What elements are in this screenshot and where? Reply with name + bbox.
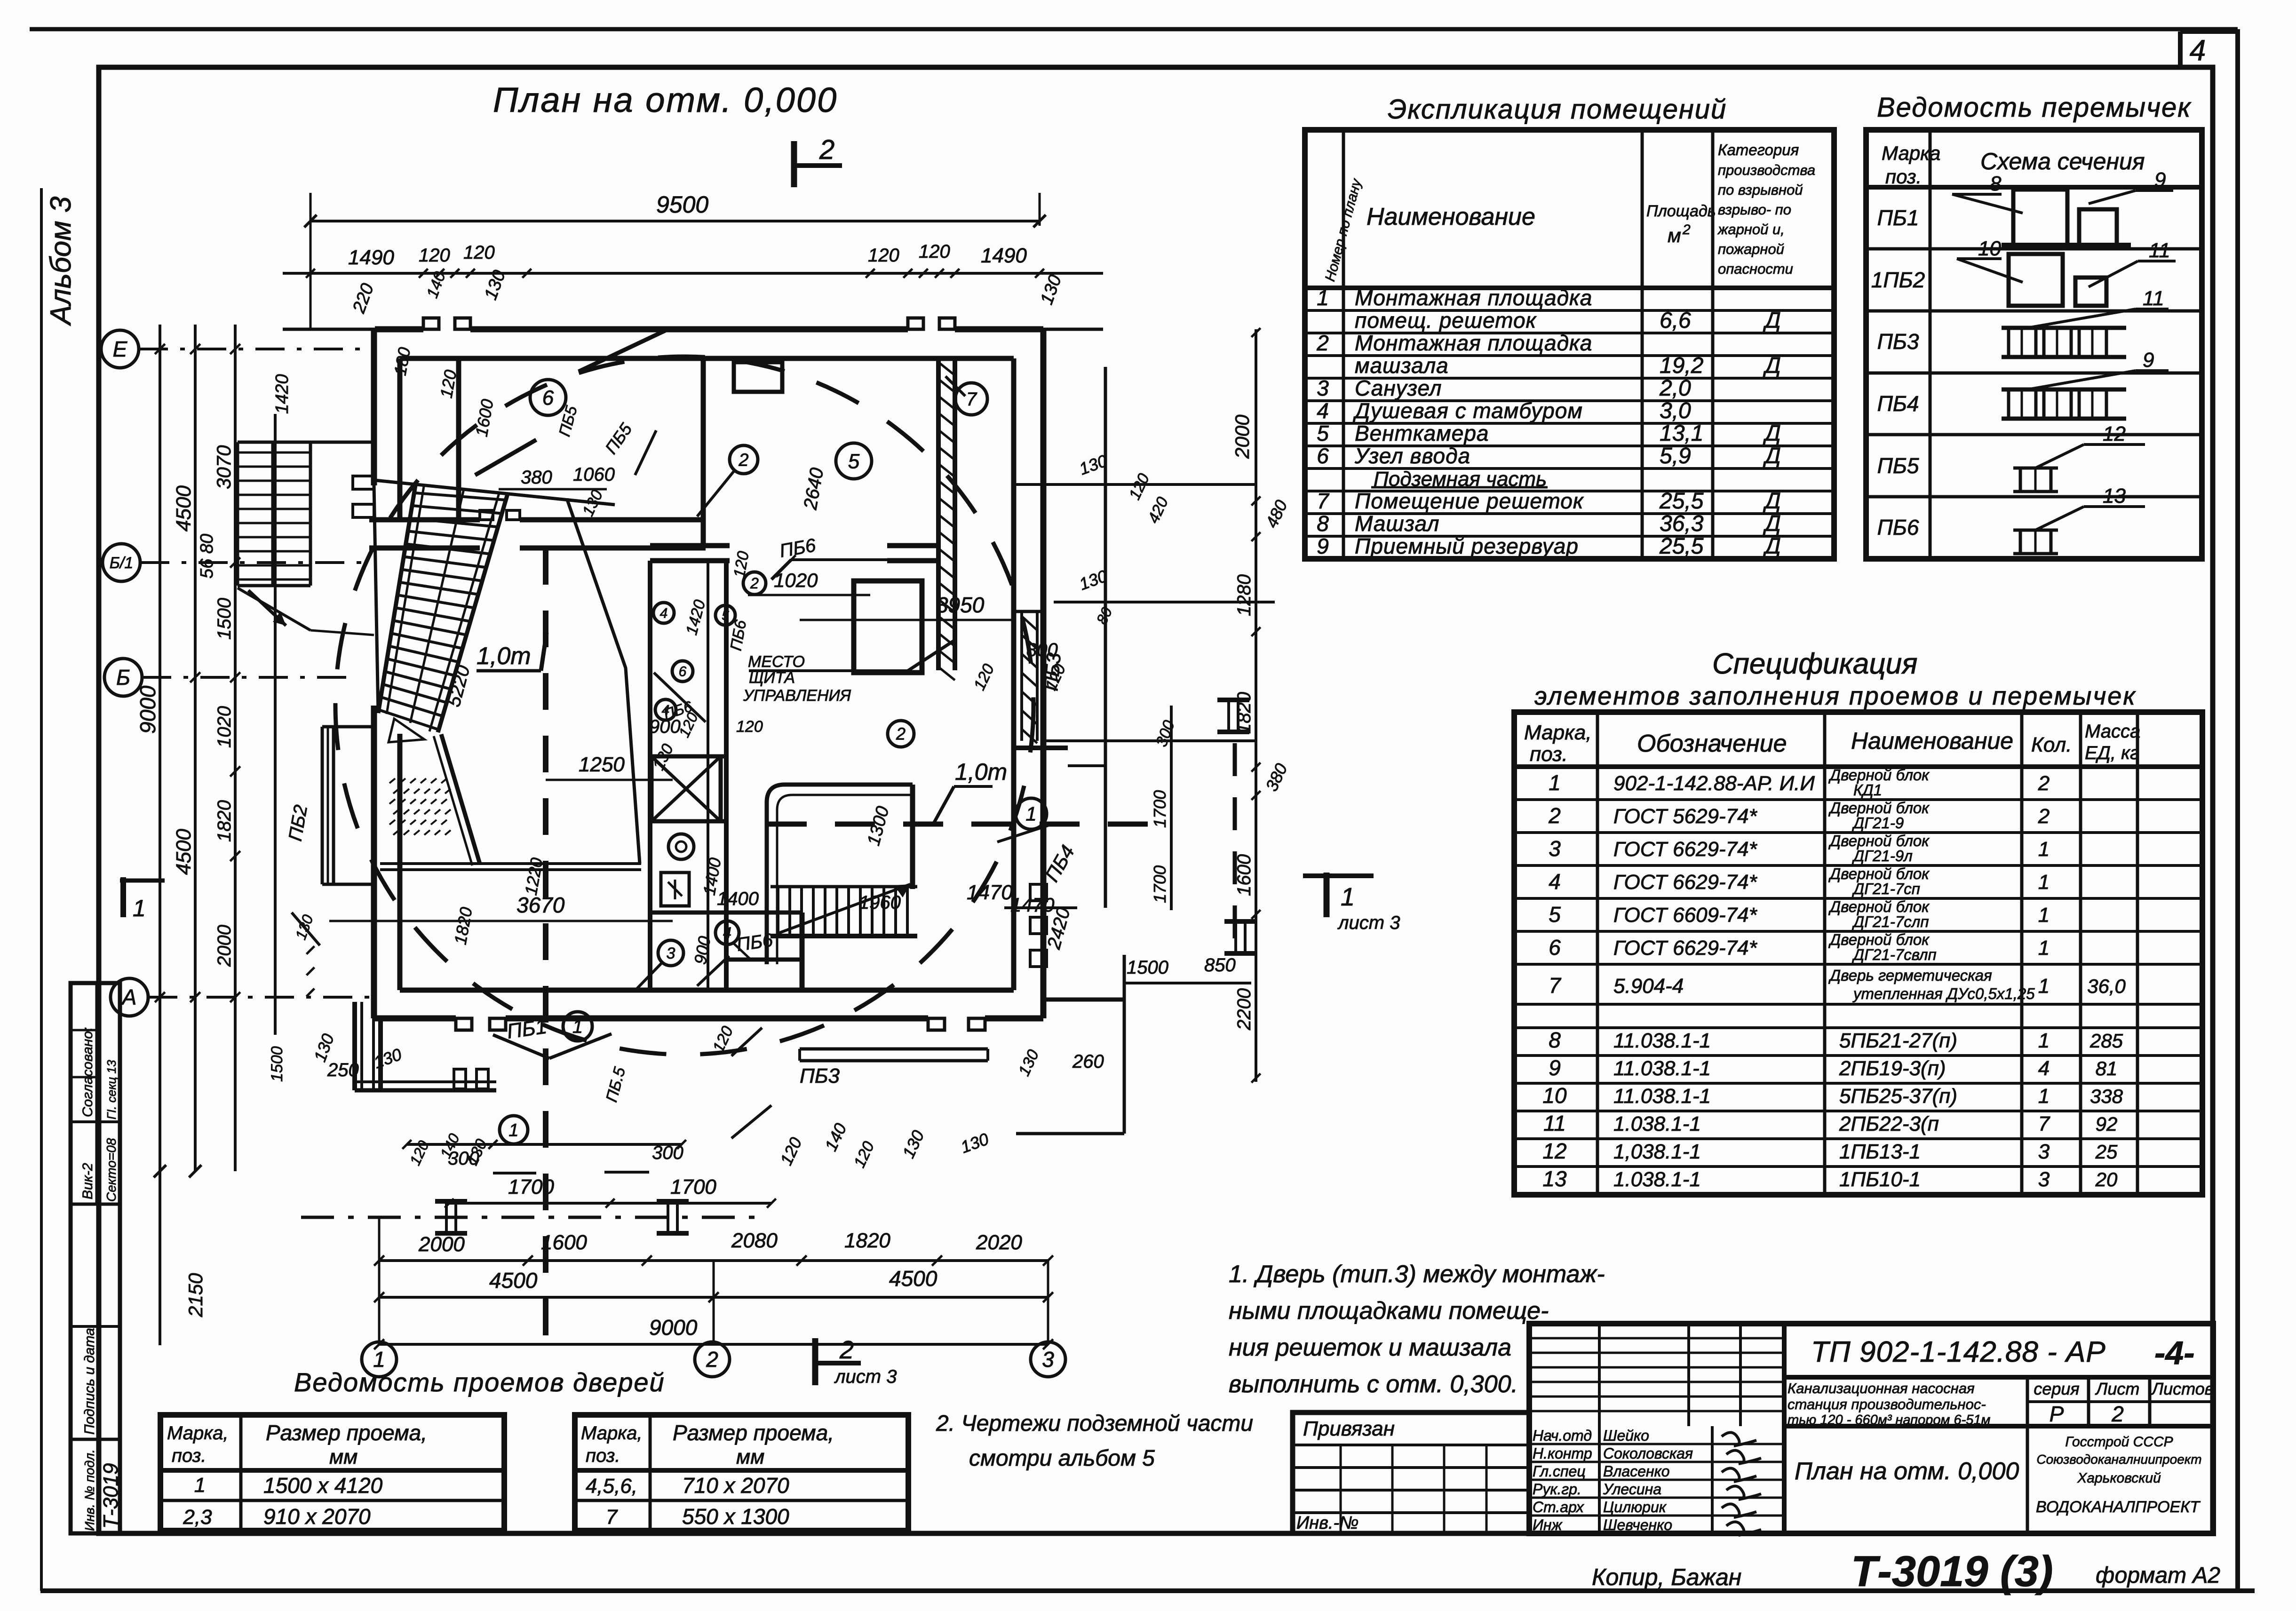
svg-text:11: 11	[2149, 239, 2170, 262]
door leader dashes	[579, 329, 668, 372]
svg-text:Спецификация: Спецификация	[1712, 648, 1917, 680]
svg-text:2000: 2000	[418, 1233, 465, 1256]
svg-text:1600: 1600	[1234, 854, 1255, 896]
svg-text:опасности: опасности	[1718, 261, 1793, 277]
svg-text:1060: 1060	[573, 464, 615, 485]
right porch	[1104, 367, 1107, 908]
svg-text:Д: Д	[1763, 511, 1781, 536]
axis B dashdot	[142, 676, 358, 679]
svg-text:1.038.1-1: 1.038.1-1	[1613, 1168, 1701, 1191]
svg-text:1820: 1820	[844, 1229, 890, 1252]
svg-text:25,5: 25,5	[1659, 489, 1704, 514]
svg-text:1: 1	[1025, 803, 1036, 825]
dim 300-1700 cluster	[493, 1172, 536, 1175]
right dashed vertical	[1233, 743, 1237, 943]
svg-text:ГОСТ 6609-74*: ГОСТ 6609-74*	[1613, 904, 1758, 927]
svg-text:910 х 2070: 910 х 2070	[263, 1504, 371, 1529]
svg-text:Приемный резервуар: Приемный резервуар	[1355, 534, 1579, 558]
svg-text:серия: серия	[2034, 1379, 2079, 1398]
svg-text:1470: 1470	[1010, 894, 1055, 916]
left wall window stubs	[353, 476, 374, 489]
svg-text:тью 120 - 660м³ напором 6-51м: тью 120 - 660м³ напором 6-51м	[1788, 1413, 1990, 1428]
svg-text:Шевченко: Шевченко	[1603, 1516, 1672, 1533]
right horizontal dims	[1016, 483, 1256, 486]
svg-text:машзала: машзала	[1355, 353, 1449, 378]
svg-text:3070: 3070	[213, 445, 235, 489]
right dashed horizontal	[767, 822, 1176, 827]
title block: signature rows	[1598, 1426, 1601, 1533]
left exterior wall	[371, 329, 377, 485]
svg-text:9: 9	[1317, 534, 1329, 558]
svg-text:1: 1	[1549, 770, 1561, 795]
svg-text:-4-: -4-	[2154, 1334, 2195, 1371]
hatched partition room7	[936, 358, 941, 670]
bottom exterior wall	[375, 1016, 456, 1022]
svg-text:Рук.гр.: Рук.гр.	[1533, 1481, 1581, 1498]
svg-text:1: 1	[2038, 838, 2050, 861]
svg-text:1700: 1700	[508, 1175, 554, 1198]
svg-text:1500 х 4120: 1500 х 4120	[263, 1473, 383, 1498]
svg-text:Привязан: Привязан	[1303, 1417, 1395, 1440]
svg-text:поз.: поз.	[172, 1445, 207, 1466]
svg-text:1: 1	[572, 1016, 583, 1037]
svg-text:2: 2	[896, 724, 906, 744]
svg-text:3670: 3670	[516, 893, 565, 917]
svg-text:Шейко: Шейко	[1603, 1427, 1649, 1444]
svg-text:2ПБ19-3(п): 2ПБ19-3(п)	[1839, 1057, 1946, 1080]
svg-text:станция производительнос-: станция производительнос-	[1788, 1396, 1986, 1413]
svg-text:Наименование: Наименование	[1851, 728, 2013, 754]
spec table frame	[1514, 712, 2202, 1195]
svg-text:1,0т: 1,0т	[955, 759, 1007, 785]
svg-text:5: 5	[1317, 421, 1329, 445]
svg-text:Д: Д	[1763, 489, 1781, 514]
svg-text:Санузел: Санузел	[1355, 376, 1442, 400]
svg-text:5: 5	[848, 450, 860, 473]
svg-text:Листов: Листов	[2151, 1379, 2213, 1398]
svg-text:1: 1	[1317, 286, 1329, 310]
svg-text:ПБ5: ПБ5	[1877, 453, 1919, 478]
dim 9500	[310, 220, 1040, 222]
svg-text:8: 8	[1317, 511, 1329, 536]
svg-text:1500: 1500	[268, 1046, 286, 1082]
svg-text:Т-3019 (3): Т-3019 (3)	[1851, 1548, 2053, 1595]
svg-text:1: 1	[2038, 1085, 2050, 1108]
door table left	[160, 1415, 504, 1531]
svg-text:2: 2	[2038, 805, 2050, 828]
svg-text:12: 12	[2103, 422, 2126, 445]
svg-text:ПБ1: ПБ1	[1877, 206, 1919, 230]
svg-text:300: 300	[652, 1143, 683, 1163]
internal stair well	[767, 785, 913, 964]
underground circular shell (dashed)	[335, 357, 1033, 1055]
svg-text:ными площадками помеще-: ными площадками помеще-	[1229, 1297, 1549, 1325]
svg-text:2000: 2000	[1231, 414, 1253, 459]
basin fixture	[661, 873, 689, 906]
svg-text:3: 3	[1549, 836, 1561, 861]
svg-text:Нач.отд: Нач.отд	[1533, 1427, 1592, 1444]
svg-text:5: 5	[1549, 902, 1561, 927]
svg-text:Узел ввода: Узел ввода	[1354, 444, 1470, 468]
svg-text:3,0: 3,0	[1660, 398, 1691, 423]
sheet outer edge left	[40, 188, 43, 1591]
svg-text:Б: Б	[116, 665, 130, 690]
svg-text:11.038.1-1: 11.038.1-1	[1613, 1057, 1711, 1080]
ventilation X box	[651, 756, 721, 821]
diagonal staircase treads	[415, 493, 506, 500]
svg-text:1: 1	[2038, 975, 2050, 998]
svg-text:Е: Е	[113, 337, 128, 361]
door table right	[575, 1415, 908, 1531]
svg-text:900: 900	[649, 716, 681, 737]
svg-text:380: 380	[521, 467, 552, 488]
svg-text:Размер проема,: Размер проема,	[673, 1421, 834, 1445]
svg-text:Инв. № подл.: Инв. № подл.	[82, 1449, 97, 1531]
svg-text:1500: 1500	[214, 598, 235, 640]
room circles	[530, 380, 566, 415]
svg-text:Д: Д	[1763, 353, 1781, 378]
bottom-right porch slab	[800, 1048, 988, 1051]
svg-text:Д: Д	[1763, 444, 1781, 468]
svg-text:1820: 1820	[1234, 692, 1255, 734]
svg-text:56 80: 56 80	[197, 534, 217, 579]
svg-text:550 х 1300: 550 х 1300	[682, 1504, 789, 1529]
svg-text:ПБ4: ПБ4	[1877, 391, 1919, 416]
svg-text:1ПБ2: 1ПБ2	[1871, 268, 1925, 292]
svg-text:1490: 1490	[981, 244, 1027, 267]
svg-text:Д: Д	[1763, 534, 1781, 559]
svg-text:36,0: 36,0	[2087, 975, 2126, 997]
svg-text:5ПБ25-37(п): 5ПБ25-37(п)	[1839, 1085, 1957, 1108]
privyazan box	[1293, 1413, 1529, 1533]
svg-text:2,3: 2,3	[183, 1506, 212, 1529]
title block: seriya/list	[2087, 1377, 2090, 1426]
svg-text:Р: Р	[2050, 1402, 2064, 1426]
section mark 2 bottom	[812, 1338, 818, 1385]
svg-text:УПРАВЛЕНИЯ: УПРАВЛЕНИЯ	[743, 687, 851, 705]
room1 south edge	[380, 862, 641, 865]
svg-text:1,0т: 1,0т	[477, 643, 531, 670]
svg-text:Вик-2: Вик-2	[80, 1163, 95, 1199]
svg-text:мм: мм	[736, 1445, 764, 1468]
svg-text:1470: 1470	[967, 881, 1013, 904]
svg-text:5.904-4: 5.904-4	[1613, 975, 1684, 998]
svg-text:1490: 1490	[348, 246, 394, 269]
svg-text:9: 9	[2143, 349, 2154, 372]
svg-text:4: 4	[723, 924, 731, 941]
svg-text:6: 6	[1549, 935, 1561, 960]
svg-text:ТП 902-1-142.88 - АР: ТП 902-1-142.88 - АР	[1811, 1336, 2106, 1368]
svg-text:4,5,6,: 4,5,6,	[586, 1475, 637, 1498]
svg-text:5ПБ21-27(п): 5ПБ21-27(п)	[1839, 1029, 1957, 1052]
svg-text:ПБ3: ПБ3	[1877, 329, 1919, 354]
svg-text:120: 120	[463, 242, 495, 263]
svg-text:9000: 9000	[135, 685, 160, 734]
hatch patch	[389, 778, 395, 783]
svg-text:338: 338	[2090, 1085, 2123, 1107]
svg-text:120: 120	[736, 718, 763, 736]
svg-text:Размер проема,: Размер проема,	[266, 1421, 427, 1445]
table explication frame	[1305, 130, 1834, 559]
column symbol right-bottom	[1224, 919, 1256, 924]
svg-text:7: 7	[606, 1506, 618, 1529]
title block: designation box	[1784, 1375, 2213, 1380]
svg-text:1. Дверь (тип.3) между монтаж-: 1. Дверь (тип.3) между монтаж-	[1229, 1261, 1605, 1288]
right inner dim chain	[1170, 706, 1173, 910]
column symbol bottom-right	[657, 1199, 689, 1204]
svg-text:Улесина: Улесина	[1603, 1481, 1661, 1498]
svg-text:4500: 4500	[889, 1266, 937, 1291]
svg-text:8: 8	[1549, 1028, 1561, 1052]
dim line 4500/4500	[379, 1296, 1048, 1299]
svg-text:производства: производства	[1718, 162, 1815, 178]
partition room6 vertical	[456, 358, 461, 520]
svg-text:2ПБ22-3(п: 2ПБ22-3(п	[1839, 1112, 1939, 1135]
svg-text:ДГ21-7свлп: ДГ21-7свлп	[1851, 946, 1937, 963]
svg-text:1: 1	[133, 895, 146, 921]
dim line 2000/1600/2080/1820/2020	[379, 1259, 1048, 1262]
svg-text:1ПБ13-1: 1ПБ13-1	[1839, 1140, 1921, 1163]
title block: project name	[1784, 1424, 2213, 1428]
svg-text:Марка,: Марка,	[1524, 721, 1592, 744]
svg-text:2000: 2000	[214, 925, 235, 967]
svg-text:4: 4	[1317, 398, 1329, 423]
svg-text:2: 2	[1682, 222, 1691, 238]
svg-text:Д: Д	[1763, 308, 1781, 333]
svg-text:13,1: 13,1	[1660, 421, 1703, 446]
axis circle B/1	[103, 544, 140, 581]
svg-text:8: 8	[1990, 172, 2002, 195]
svg-text:КД1: КД1	[1853, 781, 1882, 799]
section mark T1 right	[1324, 873, 1330, 917]
svg-text:Марка,: Марка,	[167, 1423, 229, 1444]
title block outer	[1529, 1324, 2213, 1533]
partition between room6 and room5	[701, 358, 706, 548]
bottom-left porch	[352, 1002, 357, 1090]
svg-text:5,9: 5,9	[1660, 444, 1691, 468]
svg-text:Экспликация помещений: Экспликация помещений	[1388, 94, 1727, 125]
svg-text:Венткамера: Венткамера	[1355, 421, 1489, 445]
wall below stair	[441, 734, 480, 864]
svg-text:285: 285	[2089, 1030, 2123, 1052]
section mark 2 top	[791, 141, 797, 187]
svg-text:7: 7	[1549, 973, 1561, 998]
control panel box	[854, 581, 922, 673]
top exterior wall	[375, 326, 423, 333]
svg-text:Секто=08: Секто=08	[104, 1138, 119, 1202]
svg-text:ГОСТ 6629-74*: ГОСТ 6629-74*	[1613, 838, 1758, 861]
svg-text:1: 1	[2038, 871, 2050, 894]
svg-text:Гл.спец: Гл.спец	[1533, 1463, 1586, 1480]
svg-text:9: 9	[2154, 168, 2166, 191]
svg-text:800: 800	[1026, 640, 1058, 660]
axis circle E	[101, 330, 139, 368]
svg-text:План на отм. 0,000: План на отм. 0,000	[493, 80, 838, 119]
svg-text:11.038.1-1: 11.038.1-1	[1613, 1029, 1711, 1052]
svg-text:120: 120	[919, 241, 950, 262]
exterior stair arrow	[248, 590, 286, 626]
svg-text:1420: 1420	[272, 374, 292, 414]
svg-text:Согласовано:: Согласовано:	[80, 1027, 95, 1117]
left wall window bump	[321, 727, 324, 884]
svg-text:1: 1	[1341, 883, 1355, 911]
svg-text:Т-3019: Т-3019	[99, 1463, 122, 1529]
right wall window	[1020, 611, 1023, 741]
svg-text:Лист: Лист	[2095, 1379, 2140, 1398]
svg-text:9500: 9500	[656, 191, 708, 218]
svg-text:3: 3	[667, 944, 675, 962]
svg-text:поз.: поз.	[1530, 743, 1568, 766]
svg-text:25: 25	[2095, 1141, 2118, 1163]
svg-text:взрыво- по: взрыво- по	[1718, 201, 1791, 218]
svg-text:1: 1	[2038, 904, 2050, 927]
internal stair treads	[771, 885, 917, 889]
svg-text:помещ. решеток: помещ. решеток	[1355, 308, 1537, 333]
left stamp strip	[71, 983, 120, 1533]
svg-text:4: 4	[1549, 869, 1561, 894]
svg-text:Д: Д	[1763, 421, 1781, 446]
svg-text:Марка: Марка	[1882, 142, 1940, 164]
svg-text:Схема сечения: Схема сечения	[1980, 148, 2145, 175]
right lower dims	[1004, 906, 1077, 909]
svg-text:2020: 2020	[976, 1231, 1022, 1254]
column symbol right-top	[1217, 698, 1249, 702]
svg-text:902-1-142.88-АР. И.И: 902-1-142.88-АР. И.И	[1613, 772, 1815, 795]
svg-text:1250: 1250	[579, 753, 625, 776]
svg-text:Кол.: Кол.	[2031, 733, 2072, 756]
svg-text:260: 260	[1072, 1051, 1104, 1072]
svg-text:Категория: Категория	[1718, 141, 1799, 159]
stair top edge line	[375, 480, 615, 505]
svg-text:2: 2	[1548, 803, 1561, 828]
svg-text:по взрывной: по взрывной	[1718, 182, 1803, 198]
svg-text:Цилюрик: Цилюрик	[1603, 1499, 1667, 1516]
svg-text:7: 7	[1317, 489, 1329, 513]
svg-text:1960: 1960	[859, 892, 901, 913]
svg-text:4: 4	[2190, 34, 2206, 67]
svg-text:м: м	[1668, 224, 1681, 246]
svg-text:ГОСТ 6629-74*: ГОСТ 6629-74*	[1613, 936, 1758, 960]
svg-text:Монтажная площадка: Монтажная площадка	[1355, 286, 1592, 310]
svg-text:2: 2	[2038, 772, 2050, 795]
svg-text:Монтажная площадка: Монтажная площадка	[1355, 331, 1592, 355]
svg-text:Марка,: Марка,	[581, 1423, 643, 1444]
svg-text:1600: 1600	[541, 1231, 587, 1254]
svg-text:ПБ3: ПБ3	[800, 1064, 840, 1087]
sheet outer edge right	[2235, 29, 2240, 1591]
svg-text:Масса: Масса	[2085, 721, 2140, 742]
svg-text:МЕСТО: МЕСТО	[748, 653, 805, 671]
svg-text:11: 11	[2143, 287, 2164, 310]
svg-text:2080: 2080	[731, 1229, 778, 1252]
svg-text:4: 4	[660, 606, 668, 621]
axis circle A	[111, 978, 148, 1016]
svg-text:пожарной: пожарной	[1718, 241, 1784, 257]
axis E dashdot	[139, 348, 376, 350]
svg-text:элементов заполнения проемов: элементов заполнения проемов и перемычек	[1534, 682, 2137, 710]
svg-text:Б/1: Б/1	[110, 554, 134, 572]
svg-text:ГОСТ 6629-74*: ГОСТ 6629-74*	[1613, 871, 1758, 894]
svg-text:Ведомость перемычек: Ведомость перемычек	[1877, 92, 2192, 123]
svg-text:2: 2	[706, 1347, 718, 1372]
left dim verticals	[159, 325, 161, 1345]
svg-text:2: 2	[750, 575, 759, 592]
svg-text:2. Чертежи подземной части: 2. Чертежи подземной части	[936, 1411, 1253, 1436]
svg-text:1500: 1500	[1127, 957, 1168, 978]
room5 bottom wall	[650, 543, 730, 548]
svg-text:36,3: 36,3	[1660, 511, 1704, 536]
svg-text:9: 9	[1549, 1055, 1561, 1080]
WC fixture	[668, 834, 694, 859]
svg-text:6: 6	[679, 664, 687, 680]
svg-text:7: 7	[966, 389, 977, 410]
svg-text:ДГ21-7сп: ДГ21-7сп	[1851, 880, 1920, 897]
staircase bottom arrow	[389, 719, 424, 742]
svg-text:Дверь герметическая: Дверь герметическая	[1828, 967, 1992, 984]
svg-text:поз.: поз.	[1885, 166, 1922, 188]
svg-text:120: 120	[419, 245, 450, 266]
svg-text:План на отм. 0,000: План на отм. 0,000	[1795, 1458, 2019, 1485]
svg-text:6: 6	[1317, 444, 1329, 468]
svg-text:2,0: 2,0	[1659, 376, 1691, 401]
svg-text:утепленная ДУс0,5х1,25: утепленная ДУс0,5х1,25	[1852, 985, 2035, 1002]
column symbol bottom-left	[435, 1199, 467, 1204]
svg-text:13: 13	[2103, 484, 2126, 508]
svg-text:1280: 1280	[1234, 574, 1255, 616]
svg-text:11: 11	[1543, 1111, 1566, 1135]
dashed vertical axis	[543, 548, 548, 1336]
svg-text:Подпись и дата: Подпись и дата	[82, 1328, 97, 1435]
svg-text:Альбом 3: Альбом 3	[45, 197, 77, 327]
left small tick cluster	[307, 946, 315, 954]
svg-text:смотри альбом 5: смотри альбом 5	[969, 1446, 1155, 1471]
svg-text:7: 7	[2038, 1112, 2050, 1135]
svg-text:Помещение решеток: Помещение решеток	[1355, 489, 1584, 513]
svg-text:ДГ21-9: ДГ21-9	[1851, 814, 1904, 832]
svg-text:Харьковский: Харьковский	[2077, 1470, 2161, 1486]
svg-text:Инж: Инж	[1533, 1516, 1563, 1533]
svg-text:3950: 3950	[936, 593, 985, 617]
svg-text:А: А	[121, 985, 137, 1009]
svg-text:3: 3	[1042, 1347, 1054, 1372]
svg-text:Власенко: Власенко	[1603, 1463, 1670, 1480]
svg-text:1020: 1020	[214, 706, 235, 748]
svg-text:4: 4	[2038, 1057, 2050, 1080]
axis circle B	[104, 659, 142, 696]
svg-text:ния решеток и машзала: ния решеток и машзала	[1229, 1334, 1511, 1361]
svg-text:поз.: поз.	[586, 1445, 620, 1466]
svg-text:Ст.арх: Ст.арх	[1533, 1499, 1584, 1516]
svg-text:5: 5	[722, 608, 729, 623]
svg-text:4500: 4500	[172, 485, 195, 532]
svg-text:850: 850	[1204, 955, 1236, 976]
svg-text:Соколовская: Соколовская	[1603, 1445, 1693, 1462]
svg-text:Копир, Бажан: Копир, Бажан	[1592, 1564, 1741, 1590]
svg-text:1: 1	[2038, 936, 2050, 960]
svg-text:20: 20	[2095, 1168, 2118, 1190]
svg-text:формат А2: формат А2	[2096, 1563, 2220, 1588]
svg-text:81: 81	[2096, 1057, 2118, 1079]
svg-text:3: 3	[2038, 1140, 2050, 1163]
svg-text:12: 12	[1542, 1139, 1566, 1163]
svg-text:120: 120	[868, 245, 899, 266]
svg-text:Площадь: Площадь	[1646, 202, 1716, 220]
svg-text:2: 2	[738, 450, 748, 470]
svg-text:25,5: 25,5	[1659, 534, 1704, 559]
svg-text:10: 10	[1542, 1083, 1567, 1108]
svg-text:Душевая с тамбуром: Душевая с тамбуром	[1352, 398, 1583, 423]
svg-text:Инв.-№: Инв.-№	[1296, 1513, 1359, 1533]
